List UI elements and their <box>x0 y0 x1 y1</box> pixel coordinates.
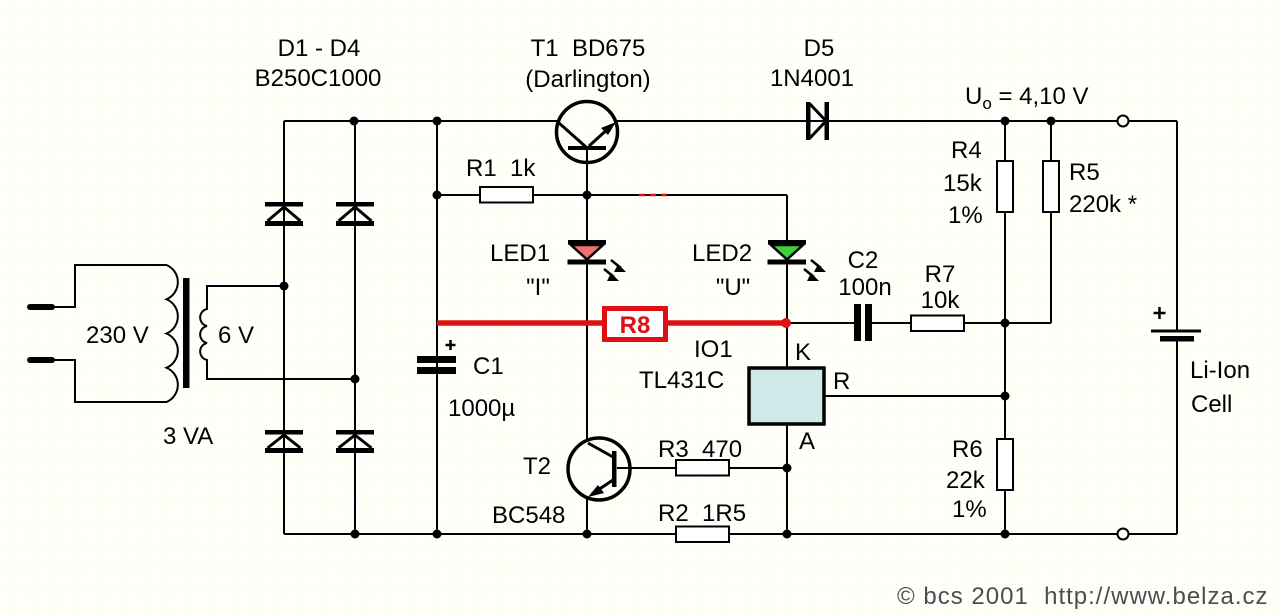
svg-text:TL431C: TL431C <box>639 367 724 394</box>
red wire left segment <box>437 320 602 326</box>
red wire right segment <box>668 320 786 326</box>
junction dot secondary top <box>280 282 289 291</box>
svg-text:1%: 1% <box>952 496 987 523</box>
wire top rail right of T1 <box>617 120 1177 122</box>
junction dot node R7/R4/R5 <box>1001 319 1010 328</box>
resistor R3 <box>676 460 729 476</box>
LED1 <box>568 240 627 281</box>
wire battery bottom lead <box>1176 341 1178 534</box>
junction dot node R lead <box>1001 392 1010 401</box>
diode D2 <box>336 202 374 226</box>
wire R7 to node <box>964 322 1005 324</box>
wire R4 column middle <box>1004 212 1006 439</box>
diode D4 <box>336 430 374 453</box>
svg-text:1%: 1% <box>948 202 983 229</box>
svg-text:LED1: LED1 <box>490 240 550 267</box>
svg-text:230 V: 230 V <box>86 322 149 349</box>
junction dot R1 right / T1 base <box>583 191 592 200</box>
wire C2 to R7 <box>872 322 911 324</box>
svg-text:R4: R4 <box>951 137 982 164</box>
resistor R6 <box>997 439 1013 490</box>
wire R4 column top <box>1004 121 1006 161</box>
junction dot top rail x354 <box>350 117 359 126</box>
wire top rail left of T1 <box>284 120 557 122</box>
svg-text:R7: R7 <box>925 261 956 288</box>
wire LED1 to T2 collector <box>586 264 588 441</box>
transistor T1 <box>557 102 618 163</box>
resistor R1 <box>480 187 533 203</box>
svg-text:C1: C1 <box>473 353 504 380</box>
transformer secondary winding <box>200 286 356 379</box>
junction dot R3/A lead <box>783 464 792 473</box>
svg-text:Cell: Cell <box>1191 391 1232 418</box>
wire bridge left vertical <box>283 121 285 534</box>
svg-text:3 VA: 3 VA <box>163 423 213 450</box>
wire T1 base lead <box>586 150 588 195</box>
junction dot bottom rail x1005 <box>1001 530 1010 539</box>
resistor R7 <box>911 316 964 332</box>
junction dot top rail x437 <box>433 117 442 126</box>
junction dot secondary bottom <box>351 375 360 384</box>
junction dot top rail x1005 <box>1001 117 1010 126</box>
wire bottom rail <box>284 533 1177 535</box>
junction dot R1 left <box>433 191 442 200</box>
junction dot bottom rail x587 <box>583 530 592 539</box>
svg-text:"U": "U" <box>716 274 750 301</box>
svg-text:T1 BD675: T1 BD675 <box>531 35 646 62</box>
junction dot bottom rail x355 <box>351 530 360 539</box>
wire branch x437 top to red node <box>436 121 438 323</box>
plug pin upper <box>30 304 52 310</box>
wire T2 emitter tail <box>586 497 588 534</box>
wire battery top lead <box>1176 121 1178 330</box>
svg-text:LED2: LED2 <box>692 240 752 267</box>
svg-text:"I": "I" <box>526 274 550 301</box>
svg-text:© bcs 2001 http://www.belza.c: © bcs 2001 http://www.belza.cz <box>897 583 1269 610</box>
IC IO1 TL431C body <box>749 368 824 424</box>
resistor R5 <box>1043 161 1059 212</box>
diode D1 <box>265 202 303 226</box>
wire LED1 top lead <box>586 195 588 240</box>
capacitor C2 <box>854 304 872 341</box>
red dash artifact on base row <box>639 194 667 197</box>
svg-text:R5: R5 <box>1069 159 1100 186</box>
plug pin lower <box>30 357 52 363</box>
terminal open circle top <box>1118 116 1129 127</box>
svg-text:100n: 100n <box>838 274 891 301</box>
junction dot top rail x1051 <box>1047 117 1056 126</box>
svg-text:BC548: BC548 <box>492 502 565 529</box>
wire node to R5 column <box>1005 322 1051 324</box>
svg-text:B250C1000: B250C1000 <box>255 65 382 92</box>
svg-text:K: K <box>795 339 811 366</box>
wire TL431 A lead to bottom rail <box>786 424 788 534</box>
svg-text:1000µ: 1000µ <box>448 395 515 422</box>
wire TL431 R lead <box>824 395 1005 397</box>
svg-text:22k: 22k <box>946 467 986 494</box>
wire bridge right vertical <box>354 121 356 534</box>
wire C1 column <box>436 323 438 534</box>
svg-text:R3 470: R3 470 <box>658 436 742 463</box>
svg-text:Li-Ion: Li-Ion <box>1190 357 1250 384</box>
svg-text:10k: 10k <box>921 287 961 314</box>
wire R6 bottom lead <box>1004 490 1006 534</box>
junction dot bottom rail x437 <box>433 530 442 539</box>
red junction node at LED2/K <box>781 318 791 328</box>
svg-text:C2: C2 <box>848 247 879 274</box>
wire LED2 bottom to TL431 K <box>786 264 788 368</box>
wire LED2 top lead <box>786 195 788 240</box>
wire base row to LED2 corner <box>587 194 787 196</box>
svg-text:(Darlington): (Darlington) <box>525 66 650 93</box>
battery BT Li-Ion cell <box>1151 307 1201 342</box>
svg-text:1N4001: 1N4001 <box>770 65 854 92</box>
terminal open circle bottom <box>1118 529 1129 540</box>
svg-text:A: A <box>799 428 815 455</box>
svg-text:T2: T2 <box>523 453 551 480</box>
wire R1 right lead <box>533 194 587 196</box>
svg-text:220k *: 220k * <box>1069 191 1137 218</box>
LED2 <box>768 240 827 281</box>
wire R1 left lead <box>437 194 480 196</box>
transformer TR primary winding <box>52 265 178 402</box>
svg-text:6 V: 6 V <box>218 322 254 349</box>
svg-text:IO1: IO1 <box>694 336 733 363</box>
resistor R4 <box>997 161 1013 212</box>
svg-text:D1 - D4: D1 - D4 <box>278 35 361 62</box>
svg-text:R6: R6 <box>952 436 983 463</box>
svg-text:Uo = 4,10 V: Uo = 4,10 V <box>965 83 1089 113</box>
transformer core bar <box>183 278 190 388</box>
wire T2 base lead <box>617 467 676 469</box>
svg-text:15k: 15k <box>943 170 983 197</box>
wire red node to C2 <box>787 322 854 324</box>
transistor T2 <box>568 438 630 500</box>
resistor R8 (red) <box>605 309 666 340</box>
svg-text:R: R <box>833 368 850 395</box>
wire R5 bottom lead <box>1050 212 1052 323</box>
svg-text:D5: D5 <box>804 35 835 62</box>
svg-text:R8: R8 <box>620 312 651 339</box>
svg-text:R1 1k: R1 1k <box>466 155 536 182</box>
diode D3 <box>265 430 303 453</box>
diode D5 <box>806 102 829 140</box>
junction dot bottom rail x787 <box>783 530 792 539</box>
capacitor C1 <box>417 340 456 374</box>
svg-text:R2 1R5: R2 1R5 <box>658 500 746 527</box>
wire R5 top lead <box>1050 121 1052 161</box>
wire R3 right lead <box>729 467 787 469</box>
resistor R2 <box>676 527 729 543</box>
